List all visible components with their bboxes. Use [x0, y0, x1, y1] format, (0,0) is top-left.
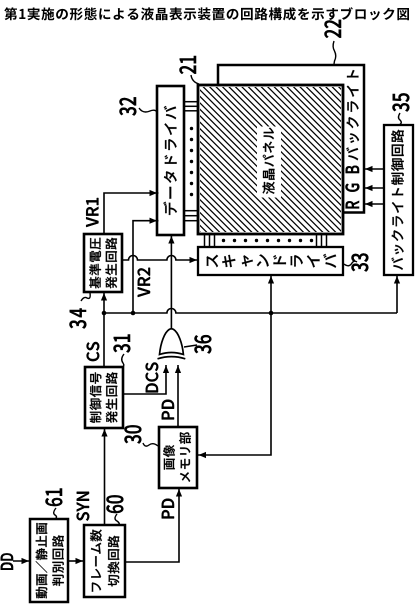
junction dot bus low [269, 311, 274, 316]
label: 制御信号発生回路 [90, 372, 102, 423]
wire: PD from image memory to XOR input [177, 365, 179, 427]
wire: VR1 from ref-voltage box to data driver [104, 193, 159, 234]
label: フレーム数切換回路 [90, 530, 102, 592]
label: バックライト [346, 70, 359, 160]
block: backlight control circuit (35) [384, 125, 413, 275]
wire: SYN frame box to control box [104, 428, 106, 525]
wire: bus to image memory [197, 313, 271, 455]
block: moving/still image discrimination circuit (61) [30, 519, 68, 602]
wire: XOR output to data driver [170, 235, 172, 329]
block: reference voltage generator (34) [84, 234, 122, 292]
ref numeral 33 with leader [352, 253, 369, 271]
ref numeral 32 with leader [120, 97, 137, 115]
arrowhead VR1 [150, 190, 158, 196]
arrowhead XOR output [168, 236, 174, 244]
arrowhead into image memory bottom [199, 452, 207, 458]
wire: bus to backlight control box [396, 275, 398, 313]
block: image memory (30) [159, 427, 197, 488]
label: CS [87, 342, 100, 361]
wire: bus branch to data driver [133, 221, 159, 313]
label: PD lower [162, 499, 174, 519]
arrowhead SYN [101, 429, 107, 437]
title: figure caption [4, 7, 409, 20]
ref numeral 60 with leader [107, 495, 124, 513]
label: データドライバ [163, 106, 177, 215]
arrowhead VR2 into scan driver [190, 257, 198, 263]
label: 動画／静止画判別回路 [36, 523, 48, 598]
ref numeral 61 with leader [46, 489, 63, 507]
arrowhead into frame box [76, 558, 84, 564]
wire: RGB arrow 3 [364, 168, 384, 170]
block: backlight unit (22) outline [218, 65, 364, 213]
ref numeral 21 with leader [180, 56, 197, 74]
label: PD upper [162, 400, 174, 420]
arrowhead R1 [365, 201, 373, 207]
block: frame number switching circuit (60) [84, 525, 125, 597]
junction dot bus top [102, 311, 107, 316]
label: SYN [77, 492, 90, 521]
wire: DD input [13, 560, 30, 562]
ref numeral 31 with leader [114, 335, 131, 353]
label: 液晶パネル on panel [257, 127, 281, 198]
connector: scan driver to panel lines+dots [204, 234, 206, 247]
arrowhead into backlight control [394, 276, 400, 284]
arrowhead branch into data driver [150, 218, 158, 224]
block: LCD panel (21) with hatching [198, 85, 343, 234]
arrowhead DCS [163, 366, 169, 374]
ref numeral 36 with leader [195, 335, 212, 353]
arrowhead R2 [365, 185, 373, 191]
arrowhead DD [22, 558, 30, 564]
junction dot bus mid [131, 311, 136, 316]
label: 画像メモリ部 [163, 445, 175, 470]
wire: discrimination to frame box [68, 560, 84, 562]
wire: RGB arrow 2 [364, 187, 384, 189]
wire: RGB arrow 1 [364, 203, 384, 205]
ref numeral 22 with leader [325, 20, 342, 38]
arrowhead CS [101, 293, 107, 301]
label: R G B [346, 201, 359, 208]
label: VR1 [86, 198, 98, 227]
label: DD [1, 553, 13, 569]
block: control signal generator (31) [85, 367, 123, 428]
wire: DCS from control box to XOR input [123, 365, 166, 394]
gate: OR/XOR gate (36) [160, 329, 184, 355]
label: スキャンドライバ (vertical) [207, 254, 337, 268]
block: scan driver (33) [198, 247, 343, 275]
arrowhead into scan driver left [268, 276, 274, 284]
label: 基準電圧発生回路 [89, 238, 101, 289]
label: VR2 [138, 268, 150, 297]
wire: VR2 from ref-voltage box to scan driver (two hops) [122, 255, 197, 260]
label: DCS [146, 363, 159, 393]
block: data driver (32) [157, 86, 184, 235]
ref numeral 34 with leader [70, 308, 87, 328]
arrowhead PD2 [176, 489, 182, 497]
connector: data driver to panel lines+dots [184, 110, 198, 112]
arrowhead R3 [365, 166, 373, 172]
ref numeral 30 with leader [125, 425, 142, 443]
wire: PD frame box to image memory [125, 488, 179, 562]
wire: CS from control box to ref-voltage box [103, 292, 105, 367]
arrowhead PD into XOR [175, 366, 181, 374]
ref numeral 35 with leader [393, 93, 410, 111]
wire: bus to scan driver [270, 275, 272, 313]
wire: CS bus vertical with hop over XOR output [104, 309, 397, 314]
label: バックライト制御回路 [391, 130, 404, 270]
